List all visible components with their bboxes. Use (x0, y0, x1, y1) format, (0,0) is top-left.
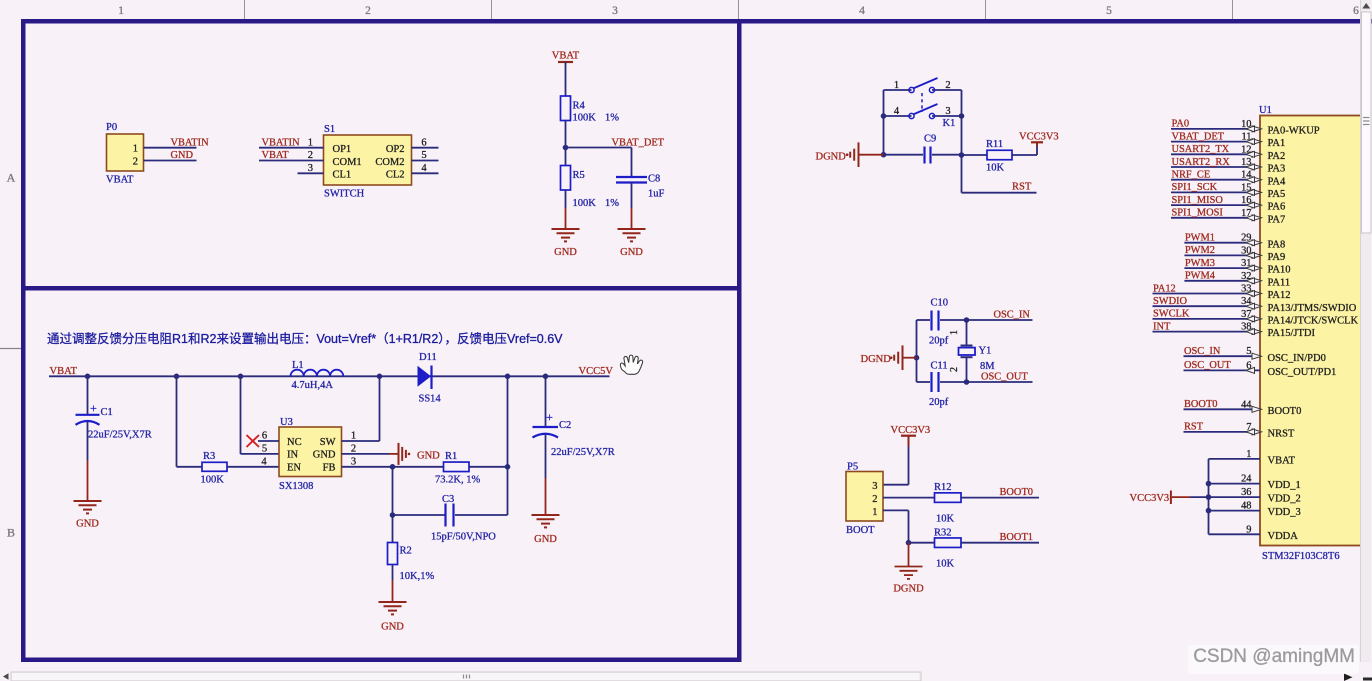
svg-text:VBAT_DET: VBAT_DET (1172, 131, 1225, 142)
svg-text:NRST: NRST (1268, 429, 1295, 440)
svg-text:PWM1: PWM1 (1185, 233, 1215, 244)
svg-text:VCC3V3: VCC3V3 (1019, 132, 1059, 143)
svg-text:DGND: DGND (893, 584, 924, 595)
svg-text:PA12: PA12 (1153, 283, 1176, 294)
svg-text:OSC_IN: OSC_IN (1184, 346, 1221, 357)
svg-text:PA5: PA5 (1268, 189, 1286, 200)
svg-text:R12: R12 (934, 482, 952, 493)
svg-text:SS14: SS14 (419, 393, 442, 404)
svg-text:VBAT: VBAT (262, 150, 290, 161)
svg-text:5: 5 (1246, 346, 1251, 357)
svg-text:OSC_OUT/PD1: OSC_OUT/PD1 (1268, 367, 1337, 378)
svg-text:SPI1_MOSI: SPI1_MOSI (1172, 208, 1224, 219)
svg-text:EN: EN (287, 463, 301, 474)
svg-text:VBAT: VBAT (50, 366, 78, 377)
svg-text:1%: 1% (605, 198, 619, 209)
svg-text:OP2: OP2 (386, 144, 405, 155)
svg-text:6: 6 (1353, 5, 1359, 17)
svg-text:9: 9 (1246, 524, 1251, 535)
svg-text:VDD_2: VDD_2 (1268, 494, 1301, 505)
svg-text:4: 4 (421, 163, 427, 174)
svg-text:PA11: PA11 (1268, 277, 1291, 288)
svg-text:PA2: PA2 (1268, 151, 1286, 162)
svg-text:OSC_OUT: OSC_OUT (981, 371, 1028, 382)
svg-text:K1: K1 (943, 118, 956, 129)
svg-text:PA10: PA10 (1268, 265, 1291, 276)
svg-text:PA6: PA6 (1268, 202, 1286, 213)
svg-text:U1: U1 (1259, 105, 1272, 116)
svg-text:4.7uH,4A: 4.7uH,4A (292, 380, 334, 391)
svg-text:PA4: PA4 (1268, 176, 1286, 187)
svg-text:73.2K, 1%: 73.2K, 1% (435, 475, 480, 486)
svg-text:22uF/25V,X7R: 22uF/25V,X7R (88, 430, 152, 441)
svg-text:6: 6 (421, 137, 426, 148)
svg-text:2: 2 (872, 494, 877, 505)
svg-text:NC: NC (287, 437, 302, 448)
svg-text:BOOT: BOOT (846, 525, 875, 536)
svg-text:1uF: 1uF (648, 189, 665, 200)
svg-text:OSC_IN: OSC_IN (994, 309, 1031, 320)
svg-text:5: 5 (262, 443, 267, 454)
svg-text:1: 1 (872, 507, 877, 518)
svg-text:+: + (546, 410, 553, 424)
svg-text:GND: GND (381, 622, 404, 633)
svg-text:SWDIO: SWDIO (1153, 296, 1188, 307)
svg-text:10K,1%: 10K,1% (400, 571, 435, 582)
svg-text:15pF/50V,NPO: 15pF/50V,NPO (431, 532, 496, 543)
svg-text:2: 2 (949, 367, 960, 372)
svg-text:PA1: PA1 (1268, 138, 1286, 149)
svg-text:2: 2 (351, 443, 356, 454)
svg-text:B: B (7, 526, 15, 540)
svg-text:OSC_IN/PD0: OSC_IN/PD0 (1268, 353, 1326, 364)
svg-text:GND: GND (171, 150, 194, 161)
svg-text:PA0-WKUP: PA0-WKUP (1268, 126, 1320, 137)
svg-text:VBATIN: VBATIN (171, 137, 210, 148)
svg-text:VDD_3: VDD_3 (1268, 507, 1301, 518)
svg-text:1: 1 (949, 330, 960, 335)
svg-text:+: + (90, 401, 97, 415)
svg-text:GND: GND (620, 247, 643, 258)
svg-text:GND: GND (313, 450, 336, 461)
svg-text:USART2_RX: USART2_RX (1172, 157, 1231, 168)
svg-text:10K: 10K (936, 559, 955, 570)
svg-text:IN: IN (287, 450, 298, 461)
svg-text:BOOT1: BOOT1 (1000, 532, 1033, 543)
svg-text:VBAT: VBAT (552, 51, 580, 62)
svg-text:RST: RST (1184, 422, 1204, 433)
svg-text:BOOT0: BOOT0 (1000, 487, 1033, 498)
svg-text:SWITCH: SWITCH (324, 189, 365, 200)
svg-text:100K: 100K (201, 475, 225, 486)
svg-text:2: 2 (945, 80, 950, 91)
svg-text:SX1308: SX1308 (279, 481, 313, 492)
svg-text:A: A (7, 171, 16, 185)
svg-text:6: 6 (262, 431, 267, 442)
svg-text:DGND: DGND (816, 151, 847, 162)
svg-text:SW: SW (320, 437, 336, 448)
svg-text:Y1: Y1 (979, 346, 992, 357)
svg-text:C9: C9 (924, 134, 936, 145)
svg-text:2: 2 (133, 157, 138, 168)
svg-text:OSC_OUT: OSC_OUT (1184, 360, 1231, 371)
svg-text:10K: 10K (986, 163, 1005, 174)
svg-text:PWM3: PWM3 (1185, 258, 1215, 269)
svg-text:C2: C2 (559, 420, 571, 431)
svg-text:BOOT0: BOOT0 (1268, 406, 1302, 417)
svg-text:DGND: DGND (861, 354, 892, 365)
svg-text:5: 5 (421, 150, 426, 161)
svg-text:2: 2 (308, 150, 313, 161)
svg-text:VBAT_DET: VBAT_DET (612, 137, 665, 148)
svg-text:OP1: OP1 (333, 144, 352, 155)
svg-text:VBAT: VBAT (1268, 456, 1296, 467)
svg-text:GND: GND (417, 450, 440, 461)
svg-text:PA13/JTMS/SWDIO: PA13/JTMS/SWDIO (1268, 303, 1357, 314)
svg-text:C3: C3 (442, 494, 454, 505)
svg-text:P5: P5 (847, 462, 858, 473)
svg-text:U3: U3 (280, 417, 293, 428)
svg-text:USART2_TX: USART2_TX (1172, 144, 1230, 155)
svg-text:PA0: PA0 (1172, 119, 1190, 130)
svg-text:1: 1 (308, 137, 313, 148)
svg-text:1: 1 (894, 80, 899, 91)
svg-text:1%: 1% (605, 113, 619, 124)
svg-text:3: 3 (308, 163, 313, 174)
svg-text:R3: R3 (203, 451, 215, 462)
svg-text:3: 3 (351, 456, 356, 467)
svg-text:PA7: PA7 (1268, 214, 1286, 225)
svg-text:100K: 100K (573, 113, 597, 124)
svg-text:VBAT: VBAT (106, 175, 134, 186)
svg-text:SPI1_MISO: SPI1_MISO (1172, 195, 1224, 206)
svg-text:GND: GND (554, 247, 577, 258)
svg-text:3: 3 (872, 481, 877, 492)
svg-text:20pf: 20pf (929, 336, 949, 347)
svg-text:2: 2 (365, 5, 371, 17)
svg-text:PA14/JTCK/SWCLK: PA14/JTCK/SWCLK (1268, 316, 1359, 327)
svg-text:4: 4 (894, 106, 900, 117)
svg-text:S1: S1 (324, 124, 335, 135)
svg-text:通过调整反馈分压电阻R1和R2来设置输出电压：Vout=Vr: 通过调整反馈分压电阻R1和R2来设置输出电压：Vout=Vref*（1+R1/R… (47, 331, 563, 346)
svg-text:L1: L1 (292, 360, 304, 371)
svg-text:RST: RST (1012, 182, 1032, 193)
svg-text:CL1: CL1 (333, 170, 352, 181)
svg-text:1: 1 (1246, 449, 1251, 460)
svg-text:36: 36 (1241, 487, 1251, 498)
svg-text:VBATIN: VBATIN (262, 137, 301, 148)
svg-text:VCC5V: VCC5V (579, 366, 614, 377)
svg-text:STM32F103C8T6: STM32F103C8T6 (1262, 551, 1340, 562)
svg-text:4: 4 (859, 5, 865, 17)
svg-text:R32: R32 (934, 528, 952, 539)
svg-text:24: 24 (1241, 474, 1252, 485)
svg-text:PA15/JTDI: PA15/JTDI (1268, 328, 1316, 339)
svg-text:C11: C11 (931, 361, 948, 372)
svg-text:P0: P0 (106, 122, 117, 133)
svg-text:C1: C1 (101, 407, 113, 418)
svg-text:C8: C8 (648, 174, 660, 185)
svg-text:VCC3V3: VCC3V3 (1130, 493, 1170, 504)
svg-text:100K: 100K (573, 198, 597, 209)
svg-text:5: 5 (1106, 5, 1112, 17)
svg-text:BOOT0: BOOT0 (1184, 399, 1217, 410)
svg-text:10K: 10K (936, 514, 955, 525)
svg-text:20pf: 20pf (929, 397, 949, 408)
svg-text:R11: R11 (986, 139, 1003, 150)
svg-text:C10: C10 (931, 298, 949, 309)
svg-text:CL2: CL2 (386, 170, 405, 181)
svg-text:FB: FB (323, 463, 336, 474)
svg-text:4: 4 (261, 456, 267, 467)
svg-text:44: 44 (1241, 399, 1252, 410)
svg-text:R4: R4 (573, 101, 586, 112)
svg-text:D11: D11 (419, 352, 437, 363)
svg-text:R2: R2 (400, 546, 412, 557)
svg-text:PA8: PA8 (1268, 239, 1286, 250)
svg-text:COM1: COM1 (333, 157, 362, 168)
svg-text:PWM4: PWM4 (1185, 271, 1216, 282)
svg-text:SPI1_SCK: SPI1_SCK (1172, 182, 1218, 193)
svg-text:PA12: PA12 (1268, 290, 1291, 301)
svg-text:3: 3 (612, 5, 618, 17)
svg-text:22uF/25V,X7R: 22uF/25V,X7R (551, 447, 615, 458)
svg-text:48: 48 (1241, 501, 1251, 512)
svg-text:VDD_1: VDD_1 (1268, 480, 1301, 491)
svg-text:VDDA: VDDA (1268, 531, 1299, 542)
svg-text:NRF_CE: NRF_CE (1172, 170, 1211, 181)
svg-text:R1: R1 (445, 451, 457, 462)
svg-text:SWCLK: SWCLK (1153, 309, 1190, 320)
svg-text:1: 1 (133, 144, 138, 155)
svg-text:GND: GND (76, 519, 99, 530)
svg-text:INT: INT (1153, 321, 1171, 332)
svg-text:PWM2: PWM2 (1185, 245, 1215, 256)
svg-text:R5: R5 (573, 170, 585, 181)
svg-text:GND: GND (534, 534, 557, 545)
svg-text:1: 1 (351, 431, 356, 442)
svg-text:CSDN @amingMM: CSDN @amingMM (1193, 646, 1355, 667)
svg-text:COM2: COM2 (375, 157, 404, 168)
svg-text:PA3: PA3 (1268, 164, 1286, 175)
svg-text:VCC3V3: VCC3V3 (891, 425, 931, 436)
svg-text:1: 1 (118, 5, 124, 17)
svg-text:3: 3 (945, 106, 950, 117)
svg-text:PA9: PA9 (1268, 252, 1286, 263)
